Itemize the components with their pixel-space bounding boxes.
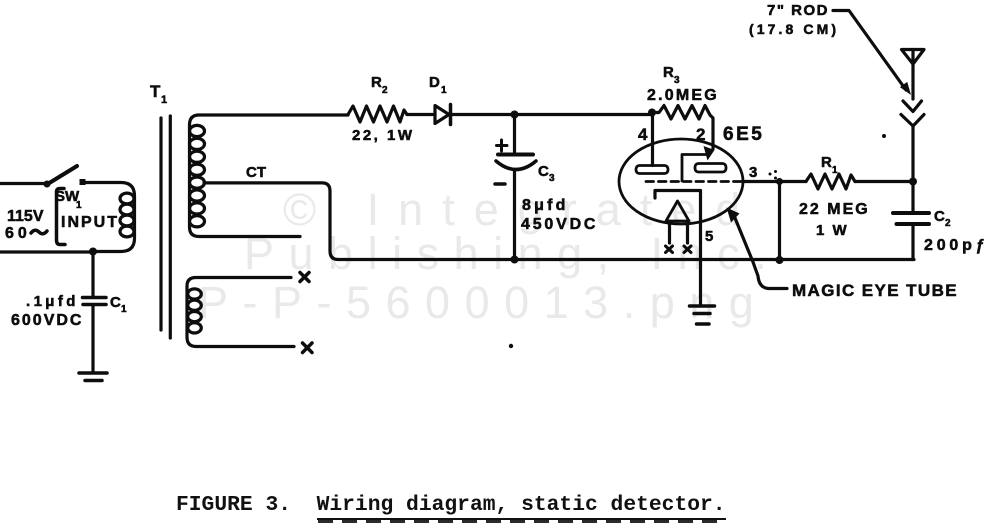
svg-text:2.0MEG: 2.0MEG <box>647 87 719 104</box>
svg-text:2: 2 <box>945 218 951 229</box>
magic eye callout arrowhead <box>727 208 740 223</box>
wire R1 to antenna rail <box>855 180 913 183</box>
transformer T1 primary loop 4 <box>120 226 134 237</box>
60Hz tilde squiggle <box>31 230 47 234</box>
svg-text:115V: 115V <box>7 208 44 225</box>
svg-text:22 MEG: 22 MEG <box>799 201 870 218</box>
svg-text:2: 2 <box>696 125 705 144</box>
magic eye callout line <box>735 218 787 289</box>
watermark line 3 <box>198 277 768 329</box>
wire R2 to D1 <box>407 113 435 116</box>
svg-text:T: T <box>150 82 161 101</box>
svg-text:C: C <box>110 294 121 311</box>
pin 2 arrowhead <box>704 146 715 161</box>
diode D1 triangle <box>435 106 449 124</box>
svg-text:8μfd: 8μfd <box>522 197 569 214</box>
svg-text:3: 3 <box>674 75 680 86</box>
transformer T1 HV secondary loop 6 <box>190 190 205 201</box>
node junction C3 top <box>511 111 519 119</box>
brace for 115V input <box>57 189 66 245</box>
antenna triangle <box>902 50 925 65</box>
svg-text:R: R <box>371 74 382 91</box>
wire pin3 junction down to rail <box>778 182 781 261</box>
svg-text:3: 3 <box>549 173 555 184</box>
wire input bottom <box>0 250 93 253</box>
svg-text:1: 1 <box>121 304 127 315</box>
speck dot 2 <box>882 134 886 138</box>
capacitor C2 bottom lead <box>911 226 914 260</box>
svg-text:CT: CT <box>246 164 266 181</box>
capacitor C1 top lead <box>91 252 94 297</box>
svg-text:60: 60 <box>5 225 31 242</box>
cathode triangle <box>666 201 689 221</box>
terminal X top <box>300 273 309 282</box>
transformer T1 HV secondary loop 7 <box>190 203 205 214</box>
speck dot 1 <box>509 344 513 348</box>
heater x mark right <box>684 246 691 253</box>
node junction rail drop <box>776 256 784 264</box>
node junction C3 bottom <box>511 256 519 264</box>
ground below tube line3 <box>697 322 710 326</box>
pin 3 wire to R1 <box>743 180 806 183</box>
wire input top <box>0 182 46 185</box>
pin 4 target plate <box>636 166 668 174</box>
node junction antenna/R1/C2 <box>909 178 917 186</box>
transformer T1 primary loop 2 <box>120 204 134 215</box>
svg-text:7" ROD: 7" ROD <box>767 2 829 19</box>
tube 6E5 envelope <box>619 139 743 224</box>
antenna chevron 1 <box>903 101 922 112</box>
transformer T1 HV secondary loop 2 <box>190 138 205 149</box>
wire D1 to R3 <box>451 113 652 116</box>
caption second broken underline <box>318 520 725 523</box>
resistor R3 <box>652 106 713 150</box>
transformer T1 HV secondary loop 3 <box>190 151 205 162</box>
transformer T1 filament loop 4 <box>188 323 202 333</box>
transformer T1 HV secondary outline with top wire to R2 <box>190 115 349 237</box>
svg-text:200pƒ: 200pƒ <box>924 237 986 254</box>
capacitor C3 top lead <box>513 115 516 153</box>
transformer T1 primary loop 1 <box>120 193 134 204</box>
svg-text:6E5: 6E5 <box>723 124 764 145</box>
transformer T1 filament loop 2 <box>188 300 202 310</box>
watermark line 1 <box>283 184 759 236</box>
terminal X bottom <box>303 343 313 353</box>
antenna stem <box>911 50 914 100</box>
svg-text:R: R <box>821 154 832 171</box>
capacitor C1 bottom lead <box>91 306 94 372</box>
resistor R1 <box>806 174 855 189</box>
rod callout line <box>833 11 906 91</box>
capacitor C2 bottom plate <box>897 222 930 226</box>
capacitor C2 top plate <box>893 211 929 215</box>
grid electrode <box>682 155 706 182</box>
svg-text:1: 1 <box>832 165 838 176</box>
svg-text:(17.8 CM): (17.8 CM) <box>749 21 839 37</box>
transformer T1 filament winding outline <box>187 278 294 347</box>
svg-text:.1μfd: .1μfd <box>26 293 79 310</box>
svg-text:D: D <box>429 74 440 91</box>
transformer T1 primary loop 3 <box>120 215 134 226</box>
transformer T1 filament loop 1 <box>188 289 202 299</box>
capacitor C3 curved plate <box>496 161 536 170</box>
capacitor C3 plus plate <box>498 153 533 157</box>
switch SW1 contact dot <box>44 181 51 188</box>
speck dots near pin 3 <box>769 173 772 176</box>
svg-text:1: 1 <box>76 200 82 211</box>
transformer T1 core line left <box>159 118 162 330</box>
svg-text:C: C <box>538 163 549 180</box>
svg-text:1: 1 <box>161 94 167 106</box>
svg-text:C: C <box>934 208 945 225</box>
capacitor C3 bottom lead <box>513 170 516 260</box>
svg-text:MAGIC EYE TUBE: MAGIC EYE TUBE <box>792 281 958 300</box>
heater x mark left <box>666 246 673 253</box>
svg-text:2: 2 <box>382 85 388 96</box>
wire antenna down <box>911 126 914 182</box>
heater leg left <box>668 222 671 243</box>
switch SW1 blade <box>46 166 77 185</box>
ground below tube line2 <box>694 312 710 316</box>
rod callout arrowhead <box>900 82 911 95</box>
svg-text:1 W: 1 W <box>816 222 849 239</box>
switch SW1 right contact tick <box>80 179 86 185</box>
svg-text:22, 1W: 22, 1W <box>352 127 415 144</box>
ground below tube line1 <box>690 304 715 308</box>
watermark line 2 <box>244 228 781 280</box>
node junction pin3/R1 drop <box>776 178 783 185</box>
svg-text:3: 3 <box>749 164 757 181</box>
capacitor C1 top plate <box>83 296 107 300</box>
antenna chevron 2 <box>901 115 924 127</box>
svg-text:4: 4 <box>638 125 648 144</box>
capacitor C1 bottom plate <box>83 303 106 307</box>
dashed deflection line <box>646 180 741 183</box>
transformer T1 core line right <box>169 116 172 338</box>
transformer T1 HV secondary loop 1 <box>190 125 205 136</box>
diode D1 cathode bar <box>449 105 453 125</box>
cathode shield and pin 5 lead to ground <box>655 191 701 306</box>
transformer T1 HV secondary loop 8 <box>190 216 205 227</box>
svg-text:5: 5 <box>705 228 713 245</box>
pin 4 lead <box>651 113 654 166</box>
caption <box>176 493 726 517</box>
node junction R3 left / top rail corner <box>648 109 656 117</box>
transformer T1 primary winding outline <box>83 183 135 252</box>
capacitor C3 minus sign <box>495 182 505 186</box>
svg-text:450VDC: 450VDC <box>521 216 598 233</box>
heater leg right <box>686 222 689 243</box>
wire CT tap to bottom rail <box>204 183 914 260</box>
pin 2 target plate <box>695 164 726 173</box>
ground below C1 line2 <box>85 379 102 383</box>
resistor R2 <box>348 106 407 122</box>
svg-text:INPUT: INPUT <box>61 214 119 231</box>
svg-text:1: 1 <box>441 85 447 96</box>
transformer T1 filament loop 3 <box>188 312 202 322</box>
capacitor C2 top lead <box>911 182 914 212</box>
transformer T1 HV secondary loop 5 (CT) <box>190 177 205 188</box>
transformer T1 HV secondary loop 4 <box>190 164 205 175</box>
capacitor C3 plus sign <box>497 140 508 151</box>
svg-text:600VDC: 600VDC <box>11 312 83 329</box>
ground below C1 line1 <box>79 371 107 375</box>
node junction C1 tap <box>89 248 97 256</box>
svg-text:R: R <box>663 64 674 81</box>
